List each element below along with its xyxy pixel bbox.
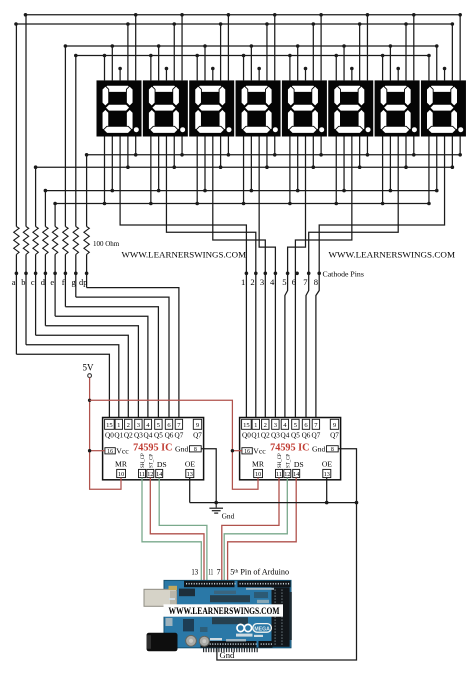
svg-text:MEGA: MEGA	[254, 626, 270, 632]
svg-text:e: e	[50, 278, 54, 287]
svg-text:c: c	[31, 278, 35, 287]
seven-segment display DIS4	[236, 80, 281, 136]
svg-text:Gnd: Gnd	[222, 512, 235, 521]
wire U1 SH_CP pin11 to Arduino 13	[142, 478, 201, 581]
wire bottom pins display DIS8	[429, 137, 460, 204]
svg-text:dp: dp	[79, 278, 87, 287]
wire cathode display DIS4 to U2 pin	[259, 137, 277, 420]
wire top pins display DIS1	[105, 15, 136, 81]
wire U2 Gnd pin8 to Arduino Gnd	[217, 449, 358, 660]
wire U1 DS pin14 to Arduino 7	[159, 478, 207, 581]
wire segment a to U1 pin	[16, 354, 109, 419]
wire cathode display DIS8 to U2 pin	[316, 137, 445, 420]
wire top pins display DIS5	[290, 15, 321, 81]
wire U2 SH_CP pin11 to Arduino	[222, 478, 279, 581]
seven-segment display DIS5	[282, 80, 327, 136]
shift register U1 74595 IC	[103, 418, 204, 480]
wire top pins display DIS8	[429, 15, 460, 81]
wire cathode display DIS5 to U2 pin	[285, 137, 306, 420]
wire segment g to U1 pin	[76, 297, 169, 419]
seven-segment display DIS2	[143, 80, 188, 136]
svg-text:1: 1	[241, 277, 245, 287]
wire bottom pins display DIS6	[336, 137, 367, 204]
wire 5V to U1 Vcc pin16 and MR pin10	[88, 378, 121, 490]
wire top pins display DIS7	[383, 15, 414, 81]
wire segment rail f (top pin row 2)	[64, 44, 439, 48]
wire bottom pins display DIS2	[151, 137, 182, 204]
wire bottom pins display DIS3	[197, 137, 228, 204]
svg-text:7: 7	[303, 277, 308, 287]
wire segment rail b (top pin row 5)	[24, 13, 462, 17]
svg-text:5V: 5V	[83, 363, 95, 373]
wire U2 DS pin14 to Arduino 5	[228, 478, 297, 581]
wire segment rail d (bottom pin row 2)	[44, 189, 439, 193]
wire U2 OE pin13 to ground rail	[325, 478, 329, 505]
svg-text:3: 3	[260, 277, 264, 287]
svg-text:f: f	[62, 278, 65, 287]
resistor R8 100 Ohm (segment dp)	[84, 155, 89, 288]
wire top pins display DIS6	[336, 15, 367, 81]
wire segment rail dp (bottom pin row 5)	[85, 153, 462, 157]
wire segment rail c (bottom pin row 4)	[34, 165, 454, 169]
wire top pins display DIS2	[151, 15, 182, 81]
wire cathode display DIS1 to U2 pin	[120, 137, 248, 420]
svg-text:Cathode Pins: Cathode Pins	[323, 270, 364, 279]
wire segment d to U1 pin	[45, 326, 138, 420]
seven-segment display DIS8	[421, 80, 466, 136]
Arduino Mega board	[144, 580, 292, 652]
wire segment rail e (bottom pin row 1)	[53, 202, 430, 206]
seven-segment display DIS1	[97, 80, 142, 136]
wire segment e to U1 pin	[55, 316, 148, 419]
wire cathode display DIS6 to U2 pin	[295, 137, 352, 420]
svg-text:4: 4	[270, 277, 275, 287]
svg-text:13: 13	[191, 568, 198, 577]
node 5V terminal	[88, 374, 92, 378]
svg-text:100 Ohm: 100 Ohm	[93, 240, 120, 248]
wire top pins display DIS3	[197, 15, 228, 81]
resistor R2 100 Ohm (segment b)	[23, 15, 28, 345]
svg-text:2: 2	[250, 277, 254, 287]
svg-text:WWW.LEARNERSWINGS.COM: WWW.LEARNERSWINGS.COM	[329, 249, 456, 259]
seven-segment display DIS6	[328, 80, 373, 136]
wire bottom pins display DIS5	[290, 137, 321, 204]
wire 5V branch to U2 Vcc pin16 and MR pin10	[90, 400, 258, 489]
wire cathode display DIS2 to U2 pin	[166, 137, 257, 420]
svg-text:11: 11	[208, 568, 213, 577]
resistor R5 100 Ohm (segment e)	[52, 204, 57, 317]
wire top pins display DIS4	[244, 15, 275, 81]
svg-text:8: 8	[314, 277, 318, 287]
wire segment b to U1 pin	[26, 345, 119, 420]
resistor R1 100 Ohm (segment a)	[14, 24, 19, 354]
shift register U2 74595 IC	[240, 418, 341, 480]
svg-text:WWW.LEARNERSWINGS.COM: WWW.LEARNERSWINGS.COM	[169, 607, 280, 617]
resistor R7 100 Ohm (segment g)	[73, 56, 78, 298]
svg-text:WWW.LEARNERSWINGS.COM: WWW.LEARNERSWINGS.COM	[122, 249, 247, 259]
resistor R3 100 Ohm (segment c)	[33, 167, 38, 335]
wire segment f to U1 pin	[65, 307, 158, 420]
svg-text:b: b	[21, 278, 25, 287]
svg-text:a: a	[12, 278, 16, 287]
wire U1 ST_CP pin12 to Arduino 11	[150, 478, 204, 581]
svg-text:5th Pin of Arduino: 5th Pin of Arduino	[230, 568, 289, 577]
wire U1 Gnd pin8 to ground rail	[201, 449, 218, 505]
seven-segment display DIS3	[189, 80, 234, 136]
svg-text:7: 7	[217, 568, 221, 577]
wire segment rail g (top pin row 1)	[74, 54, 431, 58]
ground symbol	[209, 503, 223, 513]
svg-text:5: 5	[282, 277, 286, 287]
wire ground rail	[190, 502, 357, 504]
wire U1 OE pin13 to ground rail	[189, 478, 191, 503]
resistor R6 100 Ohm (segment f)	[63, 46, 68, 307]
wire cathode display DIS3 to U2 pin	[213, 137, 267, 420]
wire bottom pins display DIS4	[244, 137, 275, 204]
wire segment c to U1 pin	[36, 335, 129, 419]
wire segment dp to U1 pin	[87, 288, 179, 420]
wire bottom pins display DIS7	[383, 137, 414, 204]
wire segment rail a (top pin row 4)	[14, 22, 454, 26]
resistor R4 100 Ohm (segment d)	[43, 191, 48, 326]
wire U2 ST_CP pin12 to Arduino	[224, 478, 287, 581]
seven-segment display DIS7	[375, 80, 420, 136]
wire bottom pins display DIS1	[105, 137, 136, 204]
wire cathode display DIS7 to U2 pin	[306, 137, 398, 420]
svg-text:6: 6	[292, 277, 297, 287]
node labels segments a-dp	[12, 278, 88, 287]
node labels cathode pins 1-8	[241, 277, 318, 287]
